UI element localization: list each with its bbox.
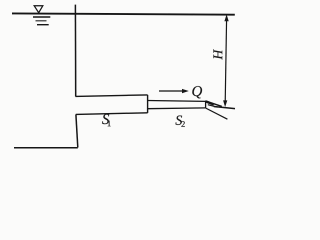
label S1 (S glyph) xyxy=(102,114,109,124)
flow arrowhead xyxy=(182,89,189,93)
dimension arrowhead up xyxy=(224,14,228,21)
nozzle wall thick section xyxy=(206,102,214,105)
pipe S2 top wall xyxy=(148,100,206,103)
dimension arrowhead down xyxy=(223,100,227,107)
water surface hatch line 1 xyxy=(33,16,50,18)
pipe S2 bottom wall xyxy=(148,107,206,110)
tank right wall upper segment xyxy=(74,5,76,97)
pipe S2 end cap xyxy=(205,101,207,108)
nozzle lower edge xyxy=(206,108,228,119)
label S2 (S glyph) xyxy=(175,116,182,125)
tank bottom xyxy=(14,147,78,149)
label S2 subscript 2 xyxy=(181,121,184,127)
nozzle upper outer edge xyxy=(205,101,221,107)
flow arrow Q shaft xyxy=(159,90,184,92)
water surface symbol triangle xyxy=(34,6,43,13)
label H (rotated) xyxy=(213,49,222,60)
jet exit datum line xyxy=(214,107,235,109)
pipe S1 bottom wall xyxy=(76,113,148,115)
label S1 subscript 1 xyxy=(108,121,111,127)
water surface hatch line 2 xyxy=(36,20,47,22)
nozzle upper inner edge xyxy=(208,105,218,108)
label Q xyxy=(192,86,202,98)
water surface line xyxy=(12,13,235,14)
pipe S1 top wall xyxy=(76,95,148,97)
tank right wall lower segment xyxy=(76,114,78,147)
dimension line H xyxy=(225,18,226,103)
pipe S1 end cap xyxy=(147,95,149,113)
water surface hatch line 3 xyxy=(37,24,49,26)
